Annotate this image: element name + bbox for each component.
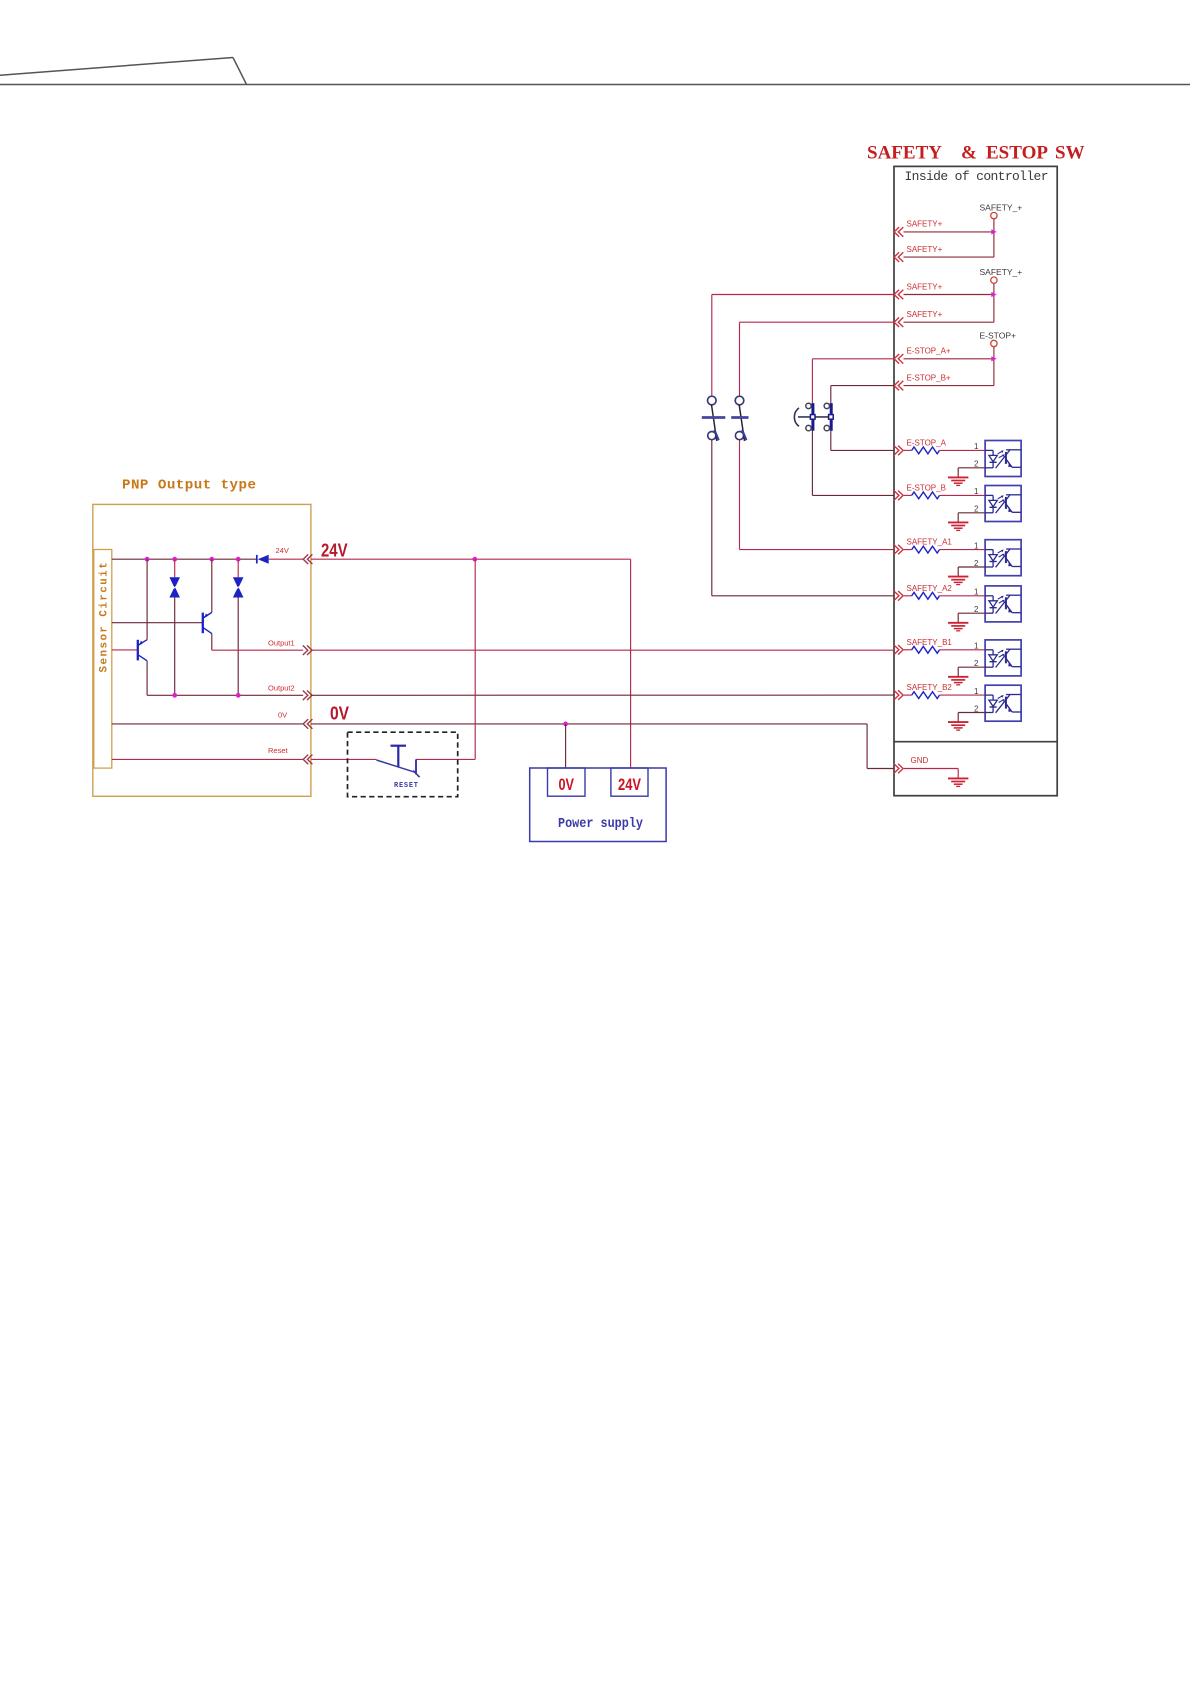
svg-text:SAFETY_B2: SAFETY_B2 (907, 683, 953, 692)
svg-text:SAFETY_A2: SAFETY_A2 (907, 584, 953, 593)
svg-text:SAFETY+: SAFETY+ (907, 310, 943, 319)
svg-text:SAFETY+: SAFETY+ (907, 245, 943, 254)
svg-text:1: 1 (974, 687, 979, 696)
svg-text:0V: 0V (278, 711, 287, 720)
svg-text:Inside of controller: Inside of controller (905, 169, 1049, 184)
svg-text:PNP Output type: PNP Output type (122, 478, 256, 494)
svg-text:E-STOP_A: E-STOP_A (907, 438, 947, 447)
svg-text:E-STOP_B+: E-STOP_B+ (907, 373, 951, 382)
svg-text:1: 1 (974, 487, 979, 496)
svg-text:Output2: Output2 (268, 684, 295, 693)
svg-text:Power supply: Power supply (558, 816, 643, 832)
svg-text:SAFETY_+: SAFETY_+ (980, 202, 1023, 212)
svg-text:GND: GND (911, 756, 929, 765)
svg-text:1: 1 (974, 541, 979, 550)
svg-text:24V: 24V (618, 775, 642, 794)
svg-text:SAFETY&ESTOPSW: SAFETY&ESTOPSW (867, 143, 1085, 164)
svg-text:E-STOP+: E-STOP+ (980, 330, 1016, 340)
svg-text:SAFETY_A1: SAFETY_A1 (907, 538, 953, 547)
svg-text:SAFETY+: SAFETY+ (907, 220, 943, 229)
svg-text:E-STOP_A+: E-STOP_A+ (907, 347, 951, 356)
svg-text:RESET: RESET (394, 782, 418, 790)
svg-text:Sensor Circuit: Sensor Circuit (98, 561, 110, 673)
svg-text:Output1: Output1 (268, 639, 295, 648)
svg-text:0V: 0V (559, 775, 575, 794)
svg-text:24V: 24V (321, 540, 348, 561)
svg-text:1: 1 (974, 642, 979, 651)
svg-text:E-STOP_B: E-STOP_B (907, 483, 946, 492)
svg-text:1: 1 (974, 442, 979, 451)
svg-text:0V: 0V (330, 703, 350, 724)
svg-text:Reset: Reset (268, 746, 289, 755)
svg-text:1: 1 (974, 588, 979, 597)
svg-text:SAFETY_B1: SAFETY_B1 (907, 638, 953, 647)
svg-text:24V: 24V (276, 546, 289, 555)
svg-text:SAFETY_+: SAFETY_+ (980, 267, 1023, 277)
svg-text:SAFETY+: SAFETY+ (907, 282, 943, 291)
